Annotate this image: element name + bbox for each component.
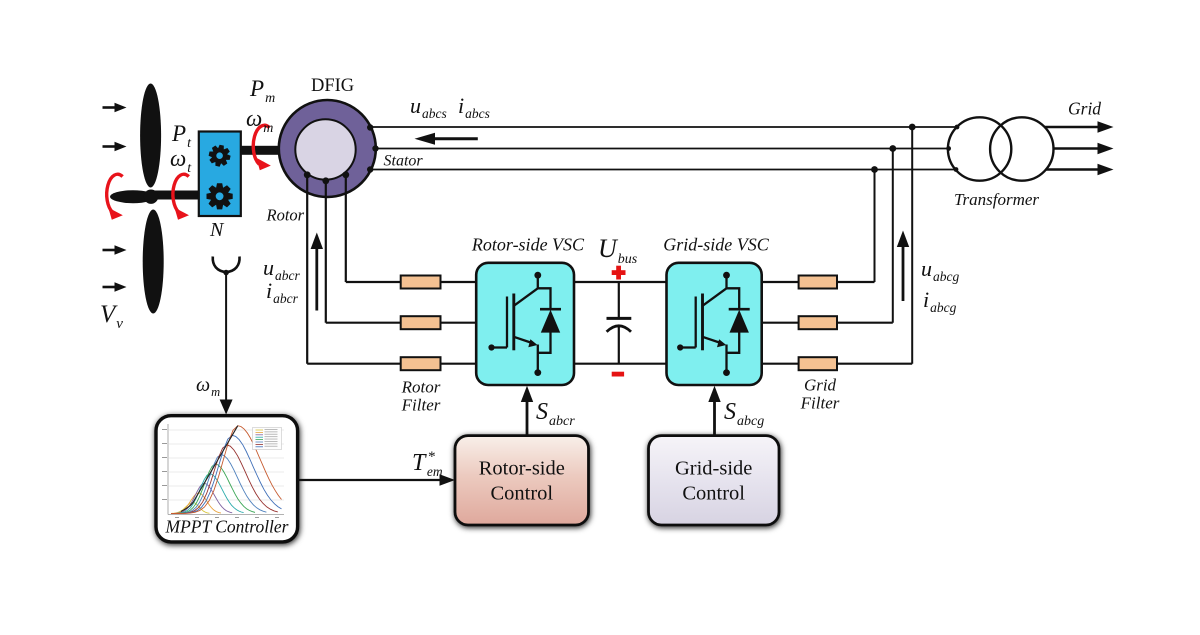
wire rotor filter to RSC row3 [441,363,478,365]
capacitor C_bus lead top [618,282,620,317]
node rotor terminal c [342,171,349,178]
svg-text:N: N [209,219,225,241]
red rotation arrow on low-speed shaft [173,174,189,220]
wind arrow 4 [103,282,127,291]
turbine shaft low-speed [148,191,201,200]
resistor rotor filter b [401,316,441,329]
arrow grid output a [1045,121,1113,133]
red rotation arrow at blades [107,174,123,220]
wire speed signal [225,273,227,404]
transformer T1 [948,117,1054,180]
capacitor C_bus lead bottom [618,326,620,363]
wire grid-filter tap c (vertical x=874 to line c) [874,170,876,283]
wire rotor phase b down [325,181,327,323]
arrow grid output b [1054,143,1114,155]
svg-text:DFIG: DFIG [311,76,354,96]
wire rotor phase c down [345,175,347,283]
wire grid-filter tap a (vertical x=912 to line a) [911,127,913,364]
resistor grid filter c [799,357,837,370]
wind arrow 1 [103,103,127,112]
svg-text:Control: Control [682,483,745,505]
wire rotor phase a down [306,175,308,364]
wire rotor filter to RSC row1 [441,281,478,283]
svg-text:Grid-side VSC: Grid-side VSC [663,235,769,255]
capacitor C_bus plate bottom curved [607,326,631,332]
arrow torque reference [298,474,455,485]
wire GSC to grid filter row3 [762,363,799,365]
node stator terminal a [367,124,373,130]
converter grid-side VSC box [667,263,762,385]
label minus DC bus [612,372,624,377]
svg-text:Rotor-side VSC: Rotor-side VSC [471,235,585,255]
wire GSC to grid filter row2 [762,322,799,324]
svg-text:Grid: Grid [804,376,837,395]
red rotation arrow on high-speed shaft [253,125,271,170]
svg-text:Control: Control [490,483,553,505]
controller rotor-side control box [455,436,589,525]
svg-text:Rotor: Rotor [401,378,441,397]
arrow omega_m into MPPT [220,400,233,415]
MPPT chart [162,424,284,518]
DC bus top wire [574,281,667,283]
gear upper [209,145,231,167]
capacitor C_bus plate top [607,317,632,320]
turbine blade horizontal [110,190,156,203]
wire rotor row2 to filter [326,322,401,324]
wind arrow 2 [103,142,127,151]
turbine blade upper [140,84,161,188]
arrow stator current direction [415,133,478,145]
wire stator phase c [371,169,956,171]
arrow S_abcr gating [521,386,533,436]
resistor grid filter a [799,276,837,289]
resistor rotor filter a [401,276,441,289]
svg-text:Stator: Stator [384,153,424,170]
IGBT with diode U1 [488,272,561,376]
DC bus bottom wire [574,363,667,365]
node transformer input c [954,167,959,172]
svg-text:Filter: Filter [800,394,840,413]
wire grid-filter tap b (vertical x=893 to line b) [892,149,894,323]
DFIG machine outer (stator ring) [279,100,376,197]
wire rotor row1 to filter [346,281,401,283]
wire grid filter row1 out [837,281,875,283]
wire rotor filter to RSC row2 [441,322,478,324]
node rotor terminal b [322,177,329,184]
node dot line b [889,145,896,152]
arrow S_abcg gating [708,386,720,436]
node rotor terminal a [304,171,311,178]
controller grid-side control box [649,436,780,525]
node transformer input a [955,125,960,130]
turbine hub [144,190,158,204]
svg-text:Rotor: Rotor [266,206,305,225]
wire grid filter row2 out [837,322,893,324]
arrow grid output c [1045,164,1113,176]
node stator terminal c [367,166,373,172]
resistor grid filter b [799,316,837,329]
shaft high-speed [241,146,281,155]
svg-text:Grid-side: Grid-side [675,458,752,480]
wire rotor row3 to filter [307,363,401,365]
svg-text:MPPT Controller: MPPT Controller [165,517,289,537]
speed sensor pickup [213,257,240,276]
arrow rotor current up [311,233,323,311]
wire stator phase b [376,148,948,150]
svg-text:Rotor-side: Rotor-side [479,458,565,480]
arrow grid current up [897,231,909,302]
svg-text:Grid: Grid [1068,99,1101,119]
node dot line a [909,124,916,131]
wire GSC to grid filter row1 [762,281,799,283]
wire stator phase a [371,126,957,128]
wire grid filter row3 out [837,363,912,365]
wind arrow 3 [103,245,127,254]
node transformer input b [946,146,951,151]
resistor rotor filter c [401,357,441,370]
MPPT controller box [156,416,298,542]
label plus DC bus [612,266,626,280]
gearbox N [199,132,241,217]
turbine blade lower [143,210,164,314]
node dot line c [871,166,878,173]
converter rotor-side VSC box [476,263,574,385]
node stator terminal b [372,145,378,151]
svg-text:Filter: Filter [401,396,441,415]
IGBT with diode U2 [677,272,750,376]
gear lower [207,183,233,209]
DFIG rotor inner [295,119,355,179]
svg-text:Transformer: Transformer [954,190,1039,209]
